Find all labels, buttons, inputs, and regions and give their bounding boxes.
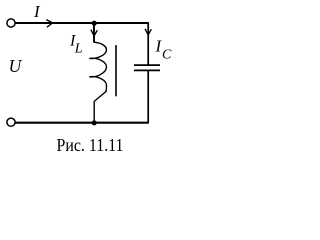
svg-text:L: L: [74, 42, 83, 57]
svg-text:U: U: [9, 56, 23, 76]
svg-text:Рис. 11.11: Рис. 11.11: [57, 135, 124, 155]
svg-text:C: C: [162, 48, 172, 63]
